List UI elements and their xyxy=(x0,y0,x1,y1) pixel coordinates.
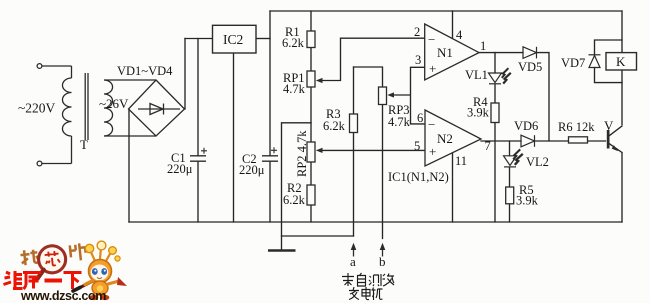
wire N2 output row through VD6 R6 xyxy=(481,140,606,142)
svg-text:N1: N1 xyxy=(437,45,453,60)
svg-text:VL2: VL2 xyxy=(526,155,549,169)
wire primary bottom xyxy=(42,136,72,164)
arm right xyxy=(108,281,119,284)
resistor R5 xyxy=(506,187,514,204)
LED VL1 xyxy=(489,68,511,84)
svg-text:−: − xyxy=(428,117,435,132)
core xyxy=(85,73,88,140)
wire N2 pin11 to bottom rail xyxy=(452,153,454,223)
wire VL2 R5 branch xyxy=(509,141,511,222)
svg-text:6.2k: 6.2k xyxy=(282,36,305,50)
resistor R4 xyxy=(491,103,499,123)
op-amp N2 xyxy=(425,110,481,166)
label 来自测速 (from tachometer) pseudo glyphs xyxy=(342,273,394,286)
wire C1 branch xyxy=(197,39,199,223)
svg-text:RP2 4.7k: RP2 4.7k xyxy=(295,130,309,177)
wire secondary top to bridge xyxy=(104,79,156,81)
capacitor C1 xyxy=(190,148,207,161)
wire VD7 parallel branch xyxy=(595,40,623,83)
svg-text:IC2: IC2 xyxy=(223,32,243,47)
wire IC2 input xyxy=(185,38,213,40)
terminal top xyxy=(37,64,42,69)
wire RP1 wiper to N1 pin2 xyxy=(321,38,425,80)
resistor R6 xyxy=(569,137,588,143)
terminal bottom xyxy=(37,161,42,166)
watermark 找芯片 with magnifier xyxy=(20,242,88,280)
svg-text:T: T xyxy=(80,137,88,152)
body xyxy=(92,281,108,295)
svg-text:N2: N2 xyxy=(437,131,453,146)
svg-text:220μ: 220μ xyxy=(167,162,193,176)
wire ground to input a xyxy=(282,235,354,237)
svg-text:VD7: VD7 xyxy=(561,56,585,70)
wire ground tap to divider midpoint xyxy=(282,123,312,250)
wire left border / C2 branch xyxy=(269,11,271,222)
svg-text:V: V xyxy=(604,118,614,133)
watermark 维库一下 red characters xyxy=(4,271,82,289)
svg-text:−: − xyxy=(428,32,435,47)
capacitor C2 xyxy=(262,147,278,161)
wire right rail to relay K xyxy=(621,11,623,125)
head xyxy=(89,260,112,283)
wire RP2 wiper to N2 pin5 xyxy=(321,149,425,151)
svg-text:www.dzsc.com: www.dzsc.com xyxy=(20,289,106,303)
resistor R1 xyxy=(307,31,315,48)
wire transistor collector xyxy=(610,126,623,136)
svg-text:11: 11 xyxy=(455,154,467,168)
secondary winding xyxy=(104,80,113,136)
svg-text:6: 6 xyxy=(417,111,423,125)
svg-text:220μ: 220μ xyxy=(239,163,265,177)
wire N1 pin4 to top rail xyxy=(452,11,454,39)
svg-text:5: 5 xyxy=(414,139,420,153)
svg-text:R6 12k: R6 12k xyxy=(558,120,595,134)
transistor V xyxy=(607,130,619,151)
wire group xyxy=(129,11,622,250)
svg-text:4: 4 xyxy=(456,28,463,42)
wire RP3 wiper to pin3 and pin6 xyxy=(392,67,425,124)
wire N1 output to VD5 and corner down xyxy=(479,53,549,141)
wire VL1 R4 branch xyxy=(494,53,496,222)
svg-text:+: + xyxy=(429,61,436,76)
wire primary top xyxy=(42,66,72,78)
diode VD6 xyxy=(521,135,535,147)
svg-text:7: 7 xyxy=(485,139,491,153)
svg-text:VD6: VD6 xyxy=(514,119,538,133)
diode VD5 xyxy=(523,47,537,59)
svg-text:2: 2 xyxy=(414,25,420,39)
antenna stalks xyxy=(90,247,111,261)
svg-text:VD5: VD5 xyxy=(518,60,542,74)
magnifier glass xyxy=(37,244,67,274)
input arrow b xyxy=(380,243,386,257)
character 芯 inside glass xyxy=(44,251,60,267)
svg-text:1: 1 xyxy=(480,39,486,53)
svg-text:VD1~VD4: VD1~VD4 xyxy=(117,64,173,78)
svg-text:a: a xyxy=(350,254,356,269)
potentiometer RP2 xyxy=(307,142,323,162)
IC2 regulator box xyxy=(213,25,257,53)
feet xyxy=(90,295,99,300)
svg-text:~26V: ~26V xyxy=(99,96,129,111)
wire secondary bottom to bridge xyxy=(104,135,156,137)
watermark mascot xyxy=(73,241,127,300)
diode VD7 xyxy=(589,55,601,68)
input arrow a xyxy=(351,243,357,257)
ground symbol xyxy=(268,249,296,252)
wire transistor emitter xyxy=(610,144,623,222)
potentiometer RP1 xyxy=(307,71,323,87)
LED VL2 xyxy=(504,149,523,167)
resistor R3 xyxy=(350,114,358,133)
wire RP3 bottom to input b xyxy=(382,105,384,239)
wire R3 branch from input a xyxy=(353,67,355,236)
svg-text:3.9k: 3.9k xyxy=(516,194,539,208)
svg-text:VL1: VL1 xyxy=(465,68,488,82)
wire IC2 ground lead xyxy=(233,53,235,222)
transformer T xyxy=(37,64,156,166)
wire bridge minus to bottom rail xyxy=(128,109,130,222)
svg-text:b: b xyxy=(379,254,386,269)
svg-text:~220V: ~220V xyxy=(18,101,56,116)
svg-text:K: K xyxy=(616,54,626,69)
wire bridge plus to IC2 input xyxy=(184,39,186,110)
wire R3 top over to RP3 top xyxy=(354,67,383,87)
eyes xyxy=(92,268,98,275)
potentiometer RP3 xyxy=(379,87,395,105)
op-amp N1 xyxy=(425,24,479,80)
wire divider chain R1 RP1 RP2 R2 xyxy=(310,11,312,222)
wire IC2 output xyxy=(256,38,270,40)
wire top supply rail xyxy=(270,10,622,12)
wire bottom ground rail xyxy=(129,221,622,223)
svg-text:3.9k: 3.9k xyxy=(467,106,490,120)
bridge rectifier VD1~VD4 xyxy=(129,80,185,136)
arm left with pen xyxy=(73,281,93,291)
primary winding xyxy=(62,78,71,136)
svg-text:3: 3 xyxy=(415,53,421,67)
relay K box xyxy=(606,53,637,70)
label 发电机 (generator) pseudo glyphs xyxy=(349,287,383,300)
svg-text:4.7k: 4.7k xyxy=(388,115,411,129)
svg-text:IC1(N1,N2): IC1(N1,N2) xyxy=(388,170,449,184)
svg-text:6.2k: 6.2k xyxy=(323,119,346,133)
svg-text:6.2k: 6.2k xyxy=(283,193,306,207)
svg-text:+: + xyxy=(429,144,436,159)
svg-text:4.7k: 4.7k xyxy=(283,82,306,96)
resistor R2 xyxy=(307,185,315,205)
